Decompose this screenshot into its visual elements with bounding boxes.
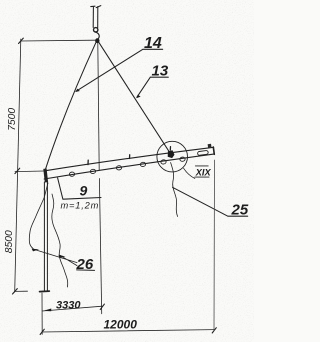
12000 right tick	[212, 328, 216, 333]
svg-text:12000: 12000	[104, 318, 138, 332]
dimension line 3330	[42, 306, 102, 311]
extension line y291 stub	[15, 290, 28, 292]
svg-text:25: 25	[231, 202, 249, 219]
svg-text:7500: 7500	[7, 108, 18, 131]
rope below detail circle	[171, 163, 178, 217]
centre extension line below beam (to 3330 dim)	[99, 179, 101, 314]
svg-text:26: 26	[76, 256, 94, 273]
tick y171	[15, 168, 20, 173]
12000 left tick	[40, 329, 44, 334]
extension line at y=40 to apex	[21, 39, 95, 42]
label 9 leader and fraction bar	[58, 178, 101, 199]
beam holes	[69, 157, 185, 177]
shackle node on beam	[168, 150, 175, 158]
left dimension line 7500/8500	[15, 39, 21, 292]
beam right end cap	[213, 147, 214, 154]
XIX overline and underline	[195, 166, 209, 177]
svg-text:m=1,2т: m=1,2т	[61, 201, 100, 211]
label 26 leaders with arrows	[34, 249, 77, 265]
svg-text:3330: 3330	[56, 299, 81, 311]
sling cable left	[45, 42, 96, 171]
sling apex shackle	[95, 38, 99, 43]
3330 left arrow	[43, 309, 51, 312]
sling cable middle	[98, 43, 99, 171]
svg-text:14: 14	[144, 35, 162, 52]
label 14 leader	[76, 49, 163, 91]
traverse beam 9 : bottom chord	[44, 154, 214, 179]
3330 right tick	[100, 304, 104, 310]
guy rope left	[29, 183, 48, 249]
guy rope right	[52, 194, 68, 287]
label 25 leader	[173, 187, 248, 216]
dimension line 12000	[42, 330, 214, 332]
detail circle XIX	[157, 141, 188, 172]
svg-text:8500: 8500	[4, 230, 15, 253]
svg-text:9: 9	[80, 183, 88, 199]
paper background	[0, 0, 254, 342]
tick y291	[13, 289, 18, 294]
svg-text:13: 13	[152, 63, 169, 80]
beam tip flag	[208, 144, 212, 148]
label 26 underline	[77, 269, 95, 272]
crane hook rod	[91, 6, 101, 28]
sling cable right	[99, 42, 170, 152]
beam top lugs	[88, 147, 171, 165]
pole base bar	[40, 290, 50, 293]
traverse beam 9 : top chord	[44, 147, 214, 171]
beam left end bracket	[43, 169, 48, 183]
bottom-left extension line	[41, 293, 43, 334]
node label XIX leader	[184, 168, 195, 178]
svg-text:XIX: XIX	[195, 167, 212, 177]
extension line y171 to beam	[15, 170, 44, 173]
hook eye	[94, 28, 98, 32]
label 13 leader	[137, 77, 169, 97]
scan grain	[0, 0, 254, 342]
right extension line	[213, 160, 216, 331]
hook body	[95, 32, 99, 40]
mast pole 26	[44, 181, 47, 291]
tick y40	[19, 38, 24, 43]
beam end slot	[197, 150, 208, 155]
